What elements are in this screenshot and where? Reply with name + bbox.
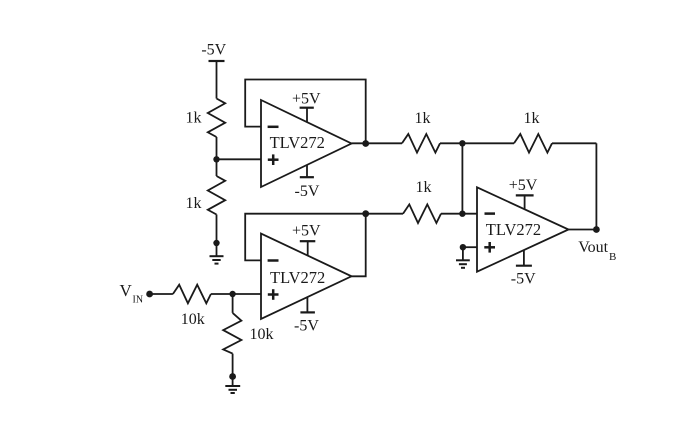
- svg-text:1k: 1k: [416, 179, 432, 196]
- svg-text:TLV272: TLV272: [270, 133, 325, 152]
- svg-text:1k: 1k: [524, 110, 540, 127]
- svg-text:+5V: +5V: [292, 90, 321, 107]
- svg-text:+5V: +5V: [509, 177, 538, 194]
- svg-text:-5V: -5V: [294, 318, 319, 335]
- svg-text:1k: 1k: [186, 195, 202, 212]
- svg-text:Vout: Vout: [578, 239, 608, 256]
- svg-text:B: B: [609, 251, 616, 263]
- svg-text:1k: 1k: [186, 110, 202, 127]
- svg-text:-5V: -5V: [295, 183, 320, 200]
- svg-text:TLV272: TLV272: [486, 220, 541, 239]
- svg-text:V: V: [120, 281, 133, 300]
- svg-text:1k: 1k: [415, 110, 431, 127]
- svg-text:-5V: -5V: [511, 271, 536, 288]
- svg-text:10k: 10k: [181, 311, 205, 328]
- svg-text:10k: 10k: [250, 326, 274, 343]
- svg-text:+5V: +5V: [292, 223, 321, 240]
- svg-text:TLV272: TLV272: [270, 268, 325, 287]
- svg-text:-5V: -5V: [201, 42, 226, 59]
- svg-text:IN: IN: [133, 294, 144, 305]
